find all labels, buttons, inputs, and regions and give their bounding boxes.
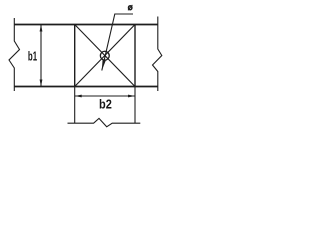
plate left edge	[74, 25, 76, 87]
leader line	[102, 14, 133, 71]
arrowhead b2 right	[128, 95, 135, 98]
break line left	[9, 18, 20, 91]
break line bottom	[68, 118, 141, 126]
dimension line b2	[75, 95, 135, 97]
plate right edge	[134, 25, 136, 87]
arrowhead b2 left	[75, 95, 82, 98]
break line right	[153, 17, 162, 92]
dimension line b1	[40, 25, 42, 87]
svg-text:b2: b2	[99, 96, 112, 111]
diagonal TL-BR	[75, 25, 135, 87]
column right edge below	[134, 87, 136, 124]
diagonal BL-TR	[75, 25, 135, 87]
arrowhead b1 top	[40, 25, 43, 32]
diameter symbol	[128, 5, 132, 10]
top bar edge	[14, 24, 158, 26]
column left edge below	[74, 87, 76, 124]
arrowhead leader	[102, 59, 106, 70]
svg-text:b1: b1	[28, 49, 37, 64]
bottom bar edge	[14, 86, 158, 88]
hole circle	[100, 51, 109, 60]
arrowhead b1 bottom	[40, 80, 43, 87]
